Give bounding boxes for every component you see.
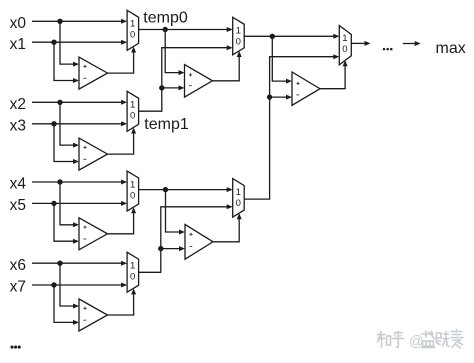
svg-text:temp0: temp0	[143, 10, 188, 27]
svg-text:temp1: temp1	[144, 116, 189, 133]
svg-text:0: 0	[236, 198, 241, 209]
svg-text:x0: x0	[10, 15, 27, 32]
svg-text:x7: x7	[10, 279, 26, 296]
svg-text:x3: x3	[10, 118, 26, 135]
svg-text:1: 1	[130, 261, 135, 272]
svg-text:1: 1	[236, 187, 241, 198]
svg-text:0: 0	[342, 44, 347, 55]
svg-text:0: 0	[130, 272, 135, 283]
svg-text:max: max	[436, 40, 466, 57]
svg-text:1: 1	[130, 19, 135, 30]
svg-text:1: 1	[342, 33, 347, 44]
svg-text:0: 0	[130, 190, 135, 201]
svg-text:1: 1	[130, 100, 135, 111]
svg-text:0: 0	[236, 37, 241, 48]
svg-text:x6: x6	[10, 257, 26, 274]
svg-text:x5: x5	[10, 197, 26, 214]
svg-text:0: 0	[130, 111, 135, 122]
svg-text:1: 1	[236, 26, 241, 37]
svg-text:x4: x4	[10, 176, 27, 193]
svg-text:x2: x2	[10, 96, 26, 113]
svg-text:x1: x1	[10, 36, 26, 53]
svg-text:0: 0	[130, 30, 135, 41]
svg-text:1: 1	[130, 179, 135, 190]
